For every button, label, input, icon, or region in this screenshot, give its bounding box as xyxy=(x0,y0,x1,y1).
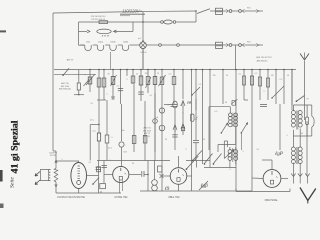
svg-text:0,5: 0,5 xyxy=(215,111,218,113)
svg-text:10: 10 xyxy=(157,73,159,75)
svg-text:C008 PF: C008 PF xyxy=(49,152,58,154)
svg-text:A 96 99: A 96 99 xyxy=(102,34,110,37)
svg-text:30: 30 xyxy=(225,102,227,104)
svg-text:5: 5 xyxy=(61,159,62,161)
svg-text:0,1: 0,1 xyxy=(91,103,94,105)
svg-text:0,1: 0,1 xyxy=(150,95,153,97)
svg-text:5: 5 xyxy=(126,79,127,81)
svg-text:0,1: 0,1 xyxy=(117,86,120,88)
svg-text:110/220V~: 110/220V~ xyxy=(122,9,143,14)
svg-text:U13a: U13a xyxy=(123,41,129,43)
svg-text:UY21N UY41/UY21N IYEr: UY21N UY41/UY21N IYEr xyxy=(57,196,85,199)
svg-text:5: 5 xyxy=(185,149,186,151)
svg-text:9: 9 xyxy=(112,137,113,139)
svg-text:99: 99 xyxy=(306,99,308,101)
svg-text:UCH21 IYEr: UCH21 IYEr xyxy=(114,196,127,199)
svg-text:A96 MG1040: A96 MG1040 xyxy=(59,88,72,91)
svg-text:0,1: 0,1 xyxy=(280,79,283,81)
svg-text:99u: 99u xyxy=(121,130,124,132)
svg-text:9: 9 xyxy=(286,135,287,137)
svg-text:99: 99 xyxy=(203,139,205,141)
svg-text:MG 1059: MG 1059 xyxy=(143,130,151,132)
svg-text:10 u: 10 u xyxy=(90,120,94,122)
svg-text:1M: 1M xyxy=(145,73,148,75)
svg-text:40 PW: 40 PW xyxy=(50,155,56,157)
svg-text:50: 50 xyxy=(226,75,228,77)
svg-text:MG 99: MG 99 xyxy=(144,136,150,138)
svg-text:ℓ9: ℓ9 xyxy=(165,186,170,192)
svg-text:A96 T9: A96 T9 xyxy=(144,132,150,135)
svg-text:0,1: 0,1 xyxy=(239,74,242,76)
svg-text:A96 T10: A96 T10 xyxy=(143,127,150,130)
svg-text:2: 2 xyxy=(109,160,110,162)
svg-text:50: 50 xyxy=(287,75,289,77)
svg-text:0,1: 0,1 xyxy=(195,119,198,121)
svg-text:49: 49 xyxy=(107,74,109,76)
svg-text:A96 T10: A96 T10 xyxy=(61,82,69,85)
svg-text:Seite: Seite xyxy=(11,176,16,188)
svg-text:A96 MG140: A96 MG140 xyxy=(257,59,269,62)
svg-text:50 u: 50 u xyxy=(108,148,112,150)
svg-text:0,1: 0,1 xyxy=(257,149,260,151)
svg-text:50: 50 xyxy=(180,105,182,107)
svg-text:5: 5 xyxy=(263,91,264,93)
svg-text:5: 5 xyxy=(242,151,243,153)
svg-text:ℓgβ: ℓgβ xyxy=(200,183,208,189)
svg-text:25: 25 xyxy=(165,139,167,141)
svg-text:9: 9 xyxy=(229,169,230,171)
svg-text:0,2: 0,2 xyxy=(255,73,258,75)
svg-text:2M: 2M xyxy=(213,75,216,77)
svg-text:49: 49 xyxy=(301,133,303,135)
svg-text:1M: 1M xyxy=(271,75,274,77)
svg-text:K25 9: K25 9 xyxy=(141,52,147,54)
svg-text:2: 2 xyxy=(106,94,107,96)
svg-text:ℓgP: ℓgP xyxy=(275,151,284,157)
svg-text:9: 9 xyxy=(84,75,85,77)
svg-text:0,1: 0,1 xyxy=(89,162,92,164)
svg-text:41 gi Spezial: 41 gi Spezial xyxy=(10,120,20,174)
svg-text:MG 1050: MG 1050 xyxy=(61,86,70,88)
svg-text:0,5: 0,5 xyxy=(169,74,172,76)
svg-text:125 220 110 24: 125 220 110 24 xyxy=(91,19,106,21)
svg-text:50: 50 xyxy=(132,163,134,165)
svg-text:U12b: U12b xyxy=(111,41,117,43)
svg-text:U12a: U12a xyxy=(98,41,104,43)
svg-text:0,1: 0,1 xyxy=(199,84,202,86)
svg-text:CBL6 5/43a: CBL6 5/43a xyxy=(265,199,278,202)
svg-text:25: 25 xyxy=(136,74,138,76)
svg-text:5mf: 5mf xyxy=(123,152,127,154)
svg-text:A96 T10 46 T112: A96 T10 46 T112 xyxy=(256,56,272,59)
svg-text:UBL1 IYEr: UBL1 IYEr xyxy=(168,196,179,199)
svg-text:A96 T9: A96 T9 xyxy=(67,59,74,62)
